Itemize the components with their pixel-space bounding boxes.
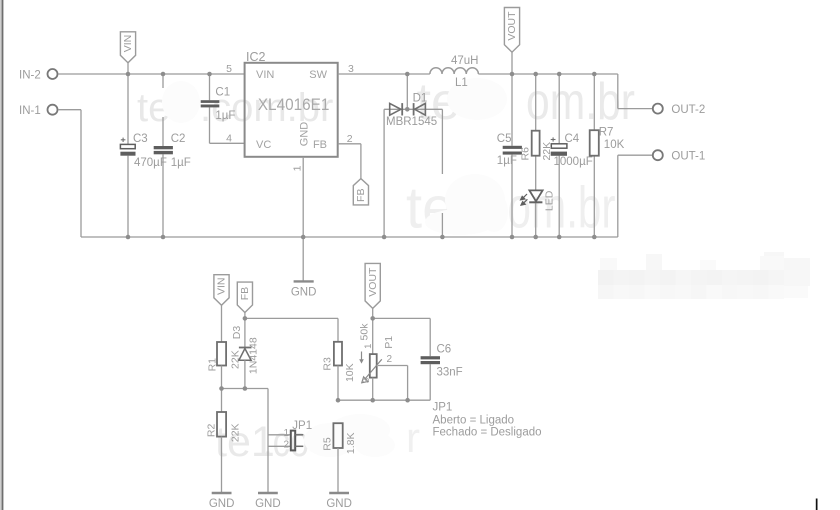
svg-text:10K: 10K [604,139,625,151]
svg-text:4: 4 [226,132,232,144]
svg-text:C3: C3 [133,133,148,145]
svg-text:1000µF: 1000µF [554,156,593,168]
svg-text:VOUT: VOUT [367,267,379,297]
svg-text:om.br: om.br [526,73,635,131]
svg-text:Aberto = Ligado: Aberto = Ligado [433,414,515,426]
svg-text:Fechado = Desligado: Fechado = Desligado [433,426,542,438]
svg-text:FB: FB [313,139,327,151]
svg-text:33nF: 33nF [437,367,463,379]
svg-text:GND: GND [209,498,235,510]
svg-text:GND: GND [326,498,352,510]
svg-text:P1: P1 [383,336,395,349]
svg-text:OUT-2: OUT-2 [671,104,705,116]
svg-text:R7: R7 [599,127,614,139]
svg-text:1: 1 [363,344,374,349]
svg-text:D1: D1 [413,93,428,105]
svg-text:VIN: VIN [216,277,228,295]
svg-text:JP1: JP1 [292,420,312,432]
svg-text:IN-1: IN-1 [19,105,41,117]
svg-text:JP1: JP1 [433,402,453,414]
svg-text:IC2: IC2 [246,50,266,64]
svg-text:10K: 10K [344,363,356,382]
svg-text:2: 2 [387,354,393,365]
svg-text:VC: VC [256,139,271,151]
svg-text:XL4016E1: XL4016E1 [258,95,330,114]
svg-text:C5: C5 [497,133,512,145]
svg-text:GND: GND [299,122,311,147]
svg-text:C2: C2 [171,133,186,145]
svg-text:C4: C4 [565,133,580,145]
svg-text:1µF: 1µF [497,155,517,167]
svg-text:D3: D3 [231,326,243,340]
svg-text:MBR1545: MBR1545 [386,116,437,128]
svg-text:VIN: VIN [122,35,134,53]
svg-text:2: 2 [283,439,289,450]
svg-text:LED: LED [543,190,555,211]
svg-text:5: 5 [226,63,232,75]
svg-text:VOUT: VOUT [506,11,518,41]
svg-text:VIN: VIN [256,69,274,81]
svg-text:2: 2 [347,133,353,145]
svg-text:47uH: 47uH [451,55,479,67]
svg-text:470µF: 470µF [134,157,167,169]
svg-text:R2: R2 [206,424,218,438]
svg-text:R5: R5 [322,437,334,451]
svg-text:FB: FB [239,287,251,300]
svg-text:om.br: om.br [508,176,616,241]
svg-text:r: r [406,414,420,461]
svg-text:1µF: 1µF [215,110,235,122]
svg-text:OUT-1: OUT-1 [671,151,705,163]
svg-text:IN-2: IN-2 [19,70,41,82]
svg-text:R3: R3 [321,357,333,371]
svg-text:SW: SW [309,69,327,81]
svg-text:FB: FB [355,189,367,202]
svg-text:GND: GND [291,287,317,299]
svg-text:50k: 50k [358,323,370,341]
svg-text:R6: R6 [520,147,532,161]
svg-text:22K: 22K [229,423,241,442]
svg-text:1.8K: 1.8K [345,432,357,454]
svg-text:1: 1 [283,428,289,439]
svg-text:C6: C6 [437,344,452,356]
svg-text:1µF: 1µF [171,157,191,169]
svg-text:GND: GND [255,498,281,510]
svg-text:C1: C1 [215,87,230,99]
svg-text:3: 3 [348,63,354,75]
svg-text:R1: R1 [206,358,218,372]
svg-text:1: 1 [292,165,304,171]
svg-text:L1: L1 [455,77,468,89]
svg-text:1N4148: 1N4148 [248,337,260,374]
